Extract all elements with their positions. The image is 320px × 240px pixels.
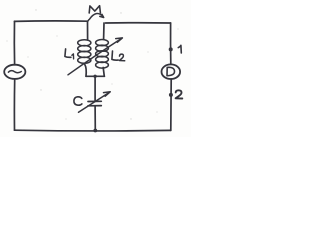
label C (74, 97, 82, 105)
wire right lower (170, 79, 172, 130)
wire left upper (13, 21, 15, 65)
detector D (162, 64, 181, 79)
wire yoke below coils (86, 75, 104, 77)
inductor L2 (96, 40, 109, 69)
wire right upper (170, 23, 172, 64)
wire L2 bottom lead (103, 68, 104, 77)
label 2 (176, 90, 183, 98)
wire top-left segment (15, 20, 88, 23)
AC source (4, 65, 25, 79)
junction bottom (93, 129, 97, 133)
wire L1 top lead (87, 21, 89, 39)
node 1 (169, 47, 173, 51)
wire capacitor top lead (94, 76, 96, 101)
label L2 (112, 51, 125, 61)
label L1 (65, 49, 74, 59)
node 2 (169, 93, 173, 97)
coupling arrow through coils (68, 38, 122, 75)
wire capacitor bottom lead (94, 106, 96, 131)
wire L2 top lead (103, 23, 105, 39)
label 1 (178, 45, 181, 53)
wire left lower (13, 79, 15, 130)
scan speckles (decorative) (6, 9, 178, 119)
wire bottom (15, 129, 171, 132)
capacitor arrow (79, 92, 111, 113)
label M (89, 6, 100, 13)
wire top-right segment (106, 22, 171, 24)
inductor L1 (78, 40, 91, 64)
junction yoke center (93, 75, 96, 78)
mutual inductance arrow M (88, 13, 104, 20)
capacitor C plates (88, 101, 101, 106)
label D (167, 67, 175, 75)
wire L1 bottom lead (85, 65, 86, 77)
